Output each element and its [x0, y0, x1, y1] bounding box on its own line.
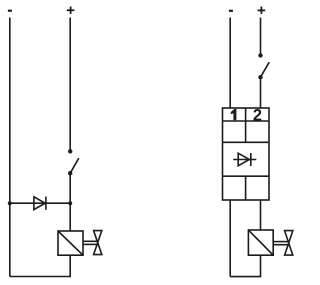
wire: module terminal 2 down to coil — [260, 200, 262, 230]
label + (left positive terminal) — [67, 7, 75, 14]
valve actuator symbol (right) — [273, 231, 293, 256]
pin 1 label — [231, 109, 237, 120]
label - (left negative terminal) — [8, 10, 12, 12]
diode V1 (flyback diode, anode left) — [34, 197, 46, 210]
wire: right negative rail — [229, 18, 231, 109]
wire: right positive rail lower (switch to module) — [260, 77, 262, 108]
valve actuator symbol (left) — [83, 231, 102, 255]
wire: right positive rail upper — [260, 18, 262, 56]
protection module U1 (terminal block outline) — [223, 108, 270, 200]
switch S (left, open contact) — [68, 149, 79, 175]
label + (right positive terminal) — [258, 7, 266, 14]
wire: diode branch horizontal — [10, 202, 70, 204]
wire: left bottom return (coil to negative rail) — [10, 255, 70, 276]
node: junction on positive rail — [68, 201, 72, 205]
wire: module terminal 1 down to return — [229, 200, 231, 277]
svg-text:2: 2 — [253, 106, 262, 124]
switch S (right, open contact) — [258, 53, 269, 79]
node: junction on negative rail — [8, 201, 12, 205]
solenoid coil Y1 (right valve coil) — [248, 230, 273, 255]
label - (right negative terminal) — [229, 10, 233, 12]
solenoid coil Y1 (left valve coil) — [58, 231, 83, 255]
wire: left positive rail lower (switch to coil) — [69, 173, 71, 231]
wire: right bottom return (coil to terminal 1 wire) — [230, 255, 260, 276]
wire: left negative rail — [9, 18, 11, 277]
diode V1 inside module (anode left) — [233, 153, 256, 166]
wire: left positive rail upper — [69, 18, 71, 152]
